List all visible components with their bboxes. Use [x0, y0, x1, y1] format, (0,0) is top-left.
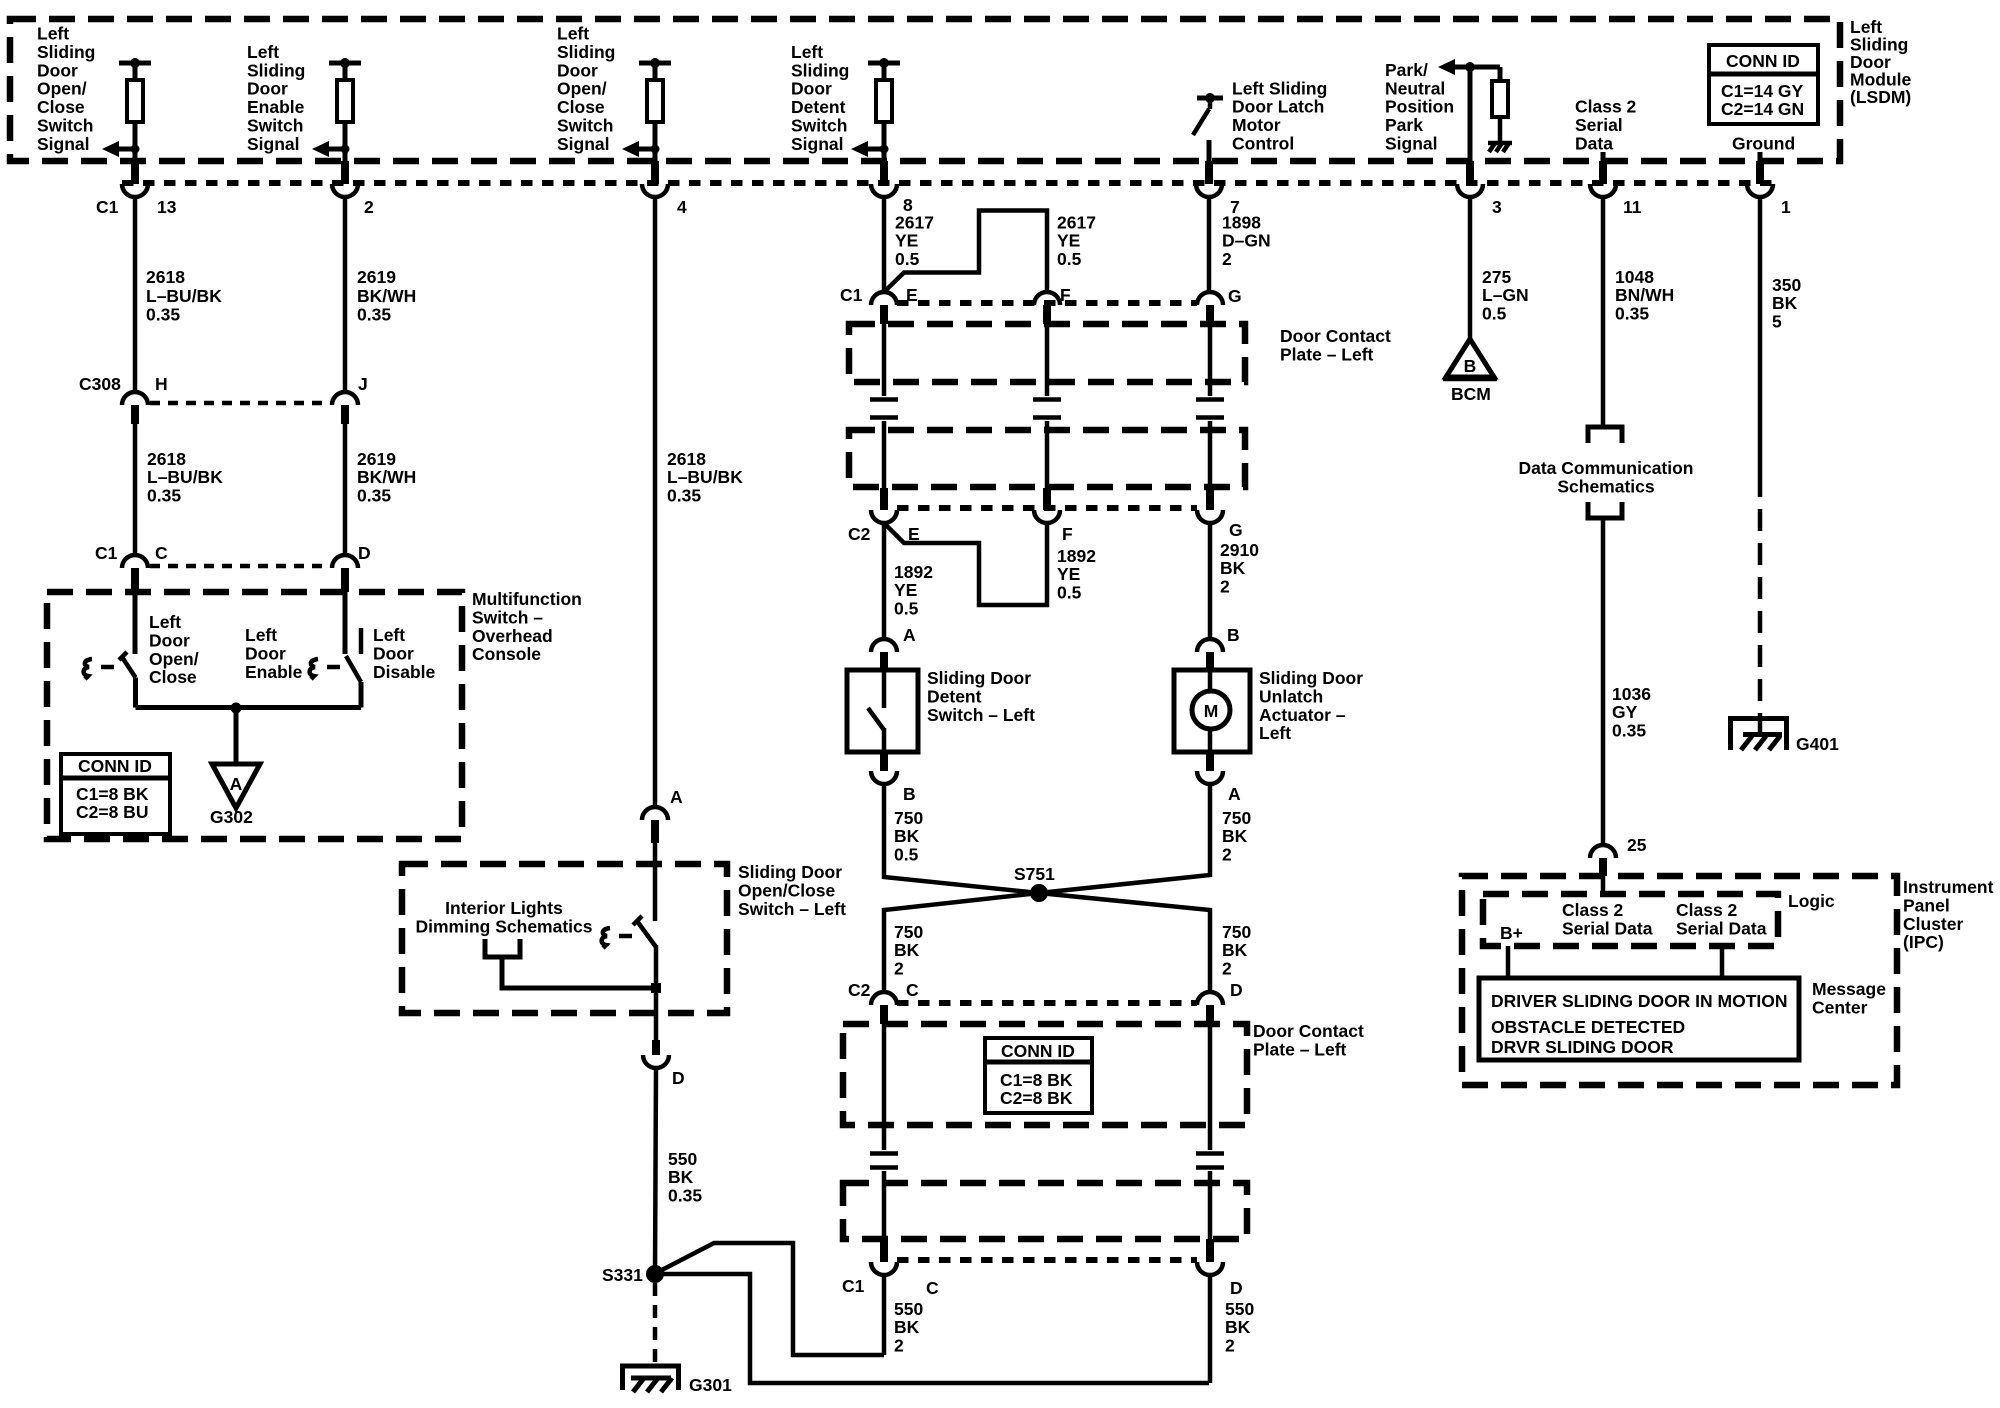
svg-text:0.5: 0.5	[1057, 249, 1082, 269]
svg-text:DRIVER SLIDING DOOR IN MOTION: DRIVER SLIDING DOOR IN MOTION	[1491, 991, 1788, 1011]
wire 2618 pin13 to C308	[133, 196, 138, 392]
wire label 2618 L-BU/BK 0.35 (lower)	[147, 449, 223, 505]
park neutral position symbol	[1438, 59, 1512, 161]
svg-text:Door: Door	[791, 79, 832, 99]
svg-text:1892: 1892	[1057, 546, 1096, 566]
svg-text:Door: Door	[245, 643, 286, 663]
ground pin label	[1732, 134, 1795, 162]
svg-text:C308: C308	[79, 374, 121, 394]
svg-text:0.35: 0.35	[667, 485, 701, 505]
svg-text:Message: Message	[1812, 979, 1886, 999]
svg-text:2: 2	[1222, 249, 1232, 269]
svg-text:Interior Lights: Interior Lights	[445, 898, 563, 918]
svg-text:C: C	[906, 980, 919, 1000]
wire label 750 BK 2 (right upper)	[1222, 808, 1251, 864]
connector C308 pin J	[332, 374, 368, 424]
module pin 7 connector	[1196, 161, 1240, 217]
switch signal symbol 1 label	[37, 24, 95, 154]
svg-text:Close: Close	[37, 97, 85, 117]
svg-text:550: 550	[894, 1299, 923, 1319]
svg-text:Logic: Logic	[1788, 891, 1835, 911]
svg-text:Door: Door	[373, 643, 414, 663]
svg-text:Overhead: Overhead	[472, 626, 553, 646]
svg-text:Sliding: Sliding	[791, 60, 849, 80]
svg-text:DRVR SLIDING DOOR: DRVR SLIDING DOOR	[1491, 1037, 1674, 1057]
svg-text:C2: C2	[848, 524, 871, 544]
switch signal symbol 4 label	[791, 42, 849, 154]
wire 2617 jog E to F	[885, 211, 1047, 293]
svg-text:0.35: 0.35	[1615, 303, 1649, 323]
switch left door enable	[345, 592, 361, 708]
wire label 750 BK 0.5	[894, 808, 923, 864]
door contact plate lower box section 2	[843, 1183, 1247, 1239]
svg-text:BK: BK	[894, 940, 920, 960]
svg-text:BK: BK	[1220, 558, 1246, 578]
multifunction switch label	[472, 589, 582, 664]
svg-text:Switch: Switch	[37, 116, 93, 136]
switch 2 dashed actuator	[310, 659, 340, 679]
wire 1898 pin7 to C1 G	[1207, 196, 1212, 292]
svg-text:A: A	[230, 774, 243, 794]
svg-text:5: 5	[1772, 311, 1782, 331]
svg-text:BK: BK	[1222, 826, 1248, 846]
wire label 2910 BK 2	[1220, 540, 1259, 596]
wire label 275 L-GN 0.5	[1482, 267, 1529, 323]
message center label	[1812, 979, 1886, 1017]
svg-text:Enable: Enable	[247, 97, 305, 117]
svg-text:Center: Center	[1812, 997, 1868, 1017]
svg-text:Close: Close	[557, 97, 605, 117]
left door open/close label	[149, 612, 199, 687]
connector A unlatch actuator	[1197, 752, 1241, 804]
svg-text:13: 13	[157, 197, 177, 217]
svg-text:0.35: 0.35	[1612, 720, 1646, 740]
wire 750 BK 0.5 detent B to S751	[884, 784, 1039, 893]
svg-text:YE: YE	[1057, 231, 1080, 251]
connector C1 pin F door plate	[1034, 285, 1071, 324]
svg-text:2618: 2618	[146, 267, 185, 287]
svg-text:Switch –: Switch –	[472, 607, 543, 627]
wire 2619 C308 to C1 multifunction	[343, 424, 348, 555]
connector C2 pin D lower plate	[1197, 980, 1243, 1024]
splice S331	[602, 1265, 664, 1285]
svg-text:Door: Door	[557, 60, 598, 80]
wire label 1898 D-GN 2	[1222, 213, 1271, 269]
connector C1 pin E door plate	[840, 285, 918, 324]
svg-text:2: 2	[364, 197, 374, 217]
svg-text:A: A	[1228, 784, 1241, 804]
svg-text:Park: Park	[1385, 115, 1423, 135]
wire label 550 BK 0.35	[668, 1149, 702, 1205]
svg-text:Signal: Signal	[557, 134, 610, 154]
data communication schematics reference	[1518, 427, 1693, 518]
contact plate sliding contact F	[1033, 324, 1061, 488]
svg-text:Sliding Door: Sliding Door	[1259, 668, 1363, 688]
switch signal symbol 2 (Left Sliding Door Enable Switch Signal)	[312, 58, 361, 161]
latch motor control switch symbol	[1193, 93, 1223, 161]
wire S751 to C2 C	[884, 893, 1039, 992]
svg-text:Enable: Enable	[245, 662, 303, 682]
svg-text:CONN ID: CONN ID	[1726, 51, 1800, 71]
wire label 2619 BK/WH 0.35 (lower)	[357, 449, 416, 505]
svg-text:(IPC): (IPC)	[1903, 932, 1944, 952]
svg-text:Ground: Ground	[1732, 134, 1795, 154]
wire label 1892 YE 0.5 (F)	[1057, 546, 1096, 602]
connector pin 25 IPC	[1590, 835, 1647, 876]
ground triangle A G302	[210, 764, 260, 827]
svg-text:0.35: 0.35	[147, 485, 181, 505]
svg-text:A: A	[670, 787, 683, 807]
wire 1048 pin11 to data comm	[1601, 196, 1606, 427]
svg-text:Serial Data: Serial Data	[1562, 918, 1653, 938]
svg-text:Door: Door	[149, 630, 190, 650]
svg-text:11: 11	[1623, 197, 1642, 217]
left door enable label	[245, 625, 303, 682]
svg-text:Schematics: Schematics	[1557, 476, 1655, 496]
svg-text:2: 2	[894, 958, 904, 978]
svg-text:Open/: Open/	[37, 79, 87, 99]
wire 2619 pin2 to C308	[343, 196, 348, 392]
svg-text:1: 1	[1781, 197, 1791, 217]
svg-text:Motor: Motor	[1232, 115, 1281, 135]
wire label 550 BK 2 (right)	[1225, 1299, 1254, 1355]
wire 550 BK 2 pin D down	[1208, 1275, 1213, 1383]
sliding door unlatch actuator box	[1174, 670, 1250, 752]
logic dashed box IPC	[1483, 894, 1778, 946]
svg-text:D: D	[1230, 1278, 1243, 1298]
wire label 1036 GY 0.35	[1612, 684, 1651, 740]
wire 350 pin1 to G401	[1758, 196, 1763, 716]
interior lights branch wire	[502, 957, 656, 988]
svg-text:S751: S751	[1014, 864, 1055, 884]
svg-text:Neutral: Neutral	[1385, 78, 1445, 98]
class 2 serial data label 1	[1562, 900, 1653, 938]
svg-text:Left: Left	[149, 612, 181, 632]
lower contact sliding contact D	[1196, 1024, 1224, 1239]
interior switch dashed actuator	[602, 928, 632, 948]
svg-text:Left: Left	[247, 42, 279, 62]
ground G301	[620, 1366, 732, 1395]
svg-text:2617: 2617	[895, 213, 934, 233]
svg-text:Sliding: Sliding	[247, 60, 305, 80]
svg-text:BK/WH: BK/WH	[357, 467, 416, 487]
svg-text:Sliding Door: Sliding Door	[738, 862, 842, 882]
svg-text:Close: Close	[149, 667, 197, 687]
svg-text:L–BU/BK: L–BU/BK	[146, 286, 222, 306]
module pin 2 connector	[332, 161, 374, 217]
connector C2 pin E door plate	[848, 488, 920, 544]
C2 door plate dotted line	[897, 505, 1197, 511]
svg-text:Switch: Switch	[247, 116, 303, 136]
wire 550 BK 2 pin C to S331 branch	[882, 1275, 887, 1355]
wire 2618 C308 to C1 multifunction	[133, 424, 138, 555]
connector D interior switch	[643, 1013, 685, 1088]
svg-text:3: 3	[1492, 197, 1502, 217]
connector C1 pin C multifunction	[95, 543, 168, 592]
multifunction switch overhead console dashed box	[47, 592, 462, 839]
wire label 1892 YE 0.5 (E)	[894, 562, 933, 618]
interior lights dimming label	[416, 898, 593, 936]
wire S751 to C2 D	[1039, 893, 1210, 992]
connector C2 pin G door plate	[1197, 488, 1243, 540]
svg-text:Plate – Left: Plate – Left	[1280, 344, 1374, 364]
connector C1 pin G door plate	[1197, 286, 1242, 324]
contact plate sliding contact G	[1196, 324, 1224, 488]
svg-text:CONN ID: CONN ID	[78, 756, 152, 776]
wire 275 pin3 to BCM	[1468, 196, 1473, 339]
instrument panel cluster dashed box	[1462, 876, 1897, 1085]
sliding door open/close switch left	[633, 843, 656, 1013]
svg-text:M: M	[1204, 701, 1219, 721]
module LSDM label	[1850, 17, 1912, 107]
svg-text:YE: YE	[895, 231, 918, 251]
svg-text:Left: Left	[791, 42, 823, 62]
splice S751	[1014, 864, 1055, 902]
svg-text:BK: BK	[1772, 293, 1798, 313]
lower contact sliding contact C	[870, 1024, 898, 1239]
wire 550 BK 0.35 to S331	[655, 1068, 656, 1274]
door contact plate upper label	[1280, 326, 1391, 364]
latch motor control label	[1232, 78, 1327, 153]
ground G401	[1728, 716, 1839, 754]
wire label 550 BK 2 (left)	[894, 1299, 923, 1355]
svg-text:Left: Left	[373, 625, 405, 645]
svg-text:Door Contact: Door Contact	[1280, 326, 1391, 346]
left door disable contact	[359, 628, 364, 654]
svg-text:BCM: BCM	[1451, 384, 1491, 404]
C1 lower plate dotted line	[897, 1257, 1197, 1263]
svg-text:C2=14 GN: C2=14 GN	[1721, 99, 1804, 119]
module pin 3 connector	[1457, 161, 1502, 217]
svg-text:Control: Control	[1232, 134, 1294, 154]
connector A interior switch	[642, 787, 683, 843]
wire C2 E to detent switch A	[882, 523, 887, 639]
svg-text:0.35: 0.35	[357, 485, 391, 505]
svg-text:0.5: 0.5	[895, 249, 920, 269]
message center box	[1479, 978, 1799, 1060]
svg-text:YE: YE	[1057, 564, 1080, 584]
svg-text:1898: 1898	[1222, 213, 1261, 233]
door contact plate lower box section 1	[843, 1024, 1247, 1125]
svg-text:D: D	[1230, 980, 1243, 1000]
wire label 2617 YE 0.5 (pin F)	[1057, 213, 1096, 269]
door contact plate lower label	[1253, 1021, 1364, 1059]
interior lights dimming dashed box	[402, 864, 727, 1013]
svg-text:Data: Data	[1575, 134, 1613, 154]
wire logic to message center left	[1506, 946, 1511, 978]
svg-text:2619: 2619	[357, 449, 396, 469]
svg-text:Switch – Left: Switch – Left	[738, 899, 846, 919]
wire S331 to door plate D (lower branch)	[663, 1274, 1209, 1383]
svg-text:Data Communication: Data Communication	[1518, 458, 1693, 478]
svg-text:Sliding: Sliding	[557, 42, 615, 62]
svg-text:Position: Position	[1385, 97, 1454, 117]
svg-text:Disable: Disable	[373, 662, 436, 682]
svg-text:2: 2	[1225, 1335, 1235, 1355]
svg-text:G302: G302	[210, 807, 253, 827]
door contact plate upper box section 1	[849, 324, 1245, 382]
svg-text:BK: BK	[668, 1167, 694, 1187]
CONN ID box lower plate	[985, 1038, 1092, 1113]
svg-text:1036: 1036	[1612, 684, 1651, 704]
class 2 serial data label 2	[1676, 900, 1767, 938]
svg-text:Detent: Detent	[927, 686, 982, 706]
svg-text:0.5: 0.5	[1482, 303, 1507, 323]
park neutral label	[1385, 60, 1454, 154]
connector C1 pin C lower plate	[842, 1239, 939, 1298]
wire 2617 pin8 to C1 E	[882, 196, 887, 292]
svg-text:Left: Left	[557, 24, 589, 44]
connector C2 pin C lower plate	[848, 980, 919, 1024]
svg-text:2617: 2617	[1057, 213, 1096, 233]
svg-text:750: 750	[1222, 808, 1251, 828]
sliding door detent switch box	[847, 670, 918, 752]
svg-text:D: D	[672, 1068, 685, 1088]
connector C1 pin D lower plate	[1197, 1239, 1243, 1298]
wire logic to message center right	[1720, 946, 1725, 978]
svg-text:C: C	[155, 543, 168, 563]
svg-text:CONN ID: CONN ID	[1001, 1041, 1075, 1061]
svg-text:Actuator –: Actuator –	[1259, 705, 1346, 725]
svg-text:B: B	[903, 784, 916, 804]
junction square interior	[651, 983, 661, 993]
wire label 2618 L-BU/BK 0.35 (pin 4)	[667, 449, 743, 505]
svg-text:BK: BK	[894, 1317, 920, 1337]
connector C2 pin F door plate	[1034, 488, 1073, 544]
CONN ID box LSDM	[1709, 45, 1818, 124]
wire label 750 BK 2 (left lower)	[894, 922, 923, 978]
svg-text:C2: C2	[848, 980, 871, 1000]
svg-text:Door: Door	[37, 60, 78, 80]
switch signal symbol 1 (Left Sliding Door Open/Close Switch Signal)	[102, 58, 151, 161]
svg-text:B: B	[1227, 625, 1240, 645]
svg-text:Left: Left	[245, 625, 277, 645]
C308 dashed connector line	[150, 401, 330, 406]
svg-text:OBSTACLE DETECTED: OBSTACLE DETECTED	[1491, 1017, 1685, 1037]
svg-text:550: 550	[1225, 1299, 1254, 1319]
C2 lower plate dotted line	[897, 1000, 1197, 1006]
svg-text:J: J	[358, 374, 368, 394]
svg-text:C1: C1	[842, 1276, 865, 1296]
switch common wire	[136, 705, 362, 710]
svg-text:0.35: 0.35	[668, 1185, 702, 1205]
svg-text:C1: C1	[840, 285, 863, 305]
svg-text:Open/Close: Open/Close	[738, 880, 836, 900]
unlatch actuator label	[1259, 668, 1363, 743]
wire to G302	[234, 708, 239, 764]
svg-text:750: 750	[894, 922, 923, 942]
svg-text:B: B	[1464, 356, 1477, 376]
svg-text:0.5: 0.5	[894, 844, 919, 864]
svg-text:C1=8 BK: C1=8 BK	[1000, 1070, 1073, 1090]
svg-text:25: 25	[1627, 835, 1647, 855]
IPC label	[1903, 877, 1994, 952]
svg-text:C1=14 GY: C1=14 GY	[1721, 81, 1804, 101]
svg-text:G: G	[1229, 520, 1243, 540]
svg-text:0.5: 0.5	[1057, 582, 1082, 602]
wire 2910 C2 G to actuator B	[1208, 523, 1213, 639]
svg-text:Switch: Switch	[557, 116, 613, 136]
svg-text:Cluster: Cluster	[1903, 914, 1963, 934]
svg-text:G301: G301	[689, 1375, 732, 1395]
wire label 350 BK 5	[1772, 275, 1801, 331]
svg-text:2618: 2618	[667, 449, 706, 469]
svg-text:Plate – Left: Plate – Left	[1253, 1039, 1347, 1059]
svg-text:C1: C1	[96, 197, 119, 217]
svg-text:2910: 2910	[1220, 540, 1259, 560]
module pin 1 connector	[1747, 161, 1791, 217]
interior lights bracket	[485, 939, 520, 957]
svg-text:YE: YE	[894, 580, 917, 600]
svg-text:H: H	[155, 374, 168, 394]
connector B detent switch	[871, 752, 916, 804]
svg-text:1892: 1892	[894, 562, 933, 582]
svg-text:Signal: Signal	[37, 134, 90, 154]
svg-text:Unlatch: Unlatch	[1259, 686, 1323, 706]
detent switch label	[927, 668, 1035, 725]
svg-text:2: 2	[1222, 958, 1232, 978]
svg-text:550: 550	[668, 1149, 697, 1169]
CONN ID box multifunction	[61, 754, 170, 834]
svg-text:G401: G401	[1796, 734, 1839, 754]
svg-text:Multifunction: Multifunction	[472, 589, 582, 609]
svg-text:D–GN: D–GN	[1222, 231, 1271, 251]
module pin 13 connector C1	[96, 161, 177, 217]
svg-text:BN/WH: BN/WH	[1615, 285, 1674, 305]
svg-text:2: 2	[894, 1335, 904, 1355]
C1 door plate dotted line	[897, 300, 1197, 306]
svg-text:Instrument: Instrument	[1903, 877, 1994, 897]
svg-text:350: 350	[1772, 275, 1801, 295]
module pin 8 connector	[871, 161, 913, 215]
svg-text:GY: GY	[1612, 702, 1638, 722]
svg-text:BK: BK	[894, 826, 920, 846]
junction dot multifunction common	[231, 703, 242, 714]
contact plate sliding contact E	[870, 324, 898, 488]
connector C1 pin D multifunction	[332, 543, 371, 592]
wire pin25 into logic box	[1601, 876, 1606, 894]
svg-text:275: 275	[1482, 267, 1511, 287]
svg-text:Sliding Door: Sliding Door	[927, 668, 1031, 688]
svg-text:BK: BK	[1222, 940, 1248, 960]
svg-text:Open/: Open/	[149, 649, 199, 669]
svg-text:(LSDM): (LSDM)	[1850, 87, 1911, 107]
wire label 2619 BK/WH 0.35 (upper)	[357, 267, 416, 325]
class 2 serial data label	[1575, 97, 1637, 161]
left door disable label	[373, 625, 436, 682]
module pin 11 connector	[1590, 161, 1642, 217]
svg-text:Switch – Left: Switch – Left	[927, 705, 1035, 725]
svg-text:C2=8 BK: C2=8 BK	[1000, 1088, 1073, 1108]
switch 1 dashed actuator	[84, 659, 114, 679]
svg-text:2619: 2619	[357, 267, 396, 287]
wire 1892 jog E to F lower	[885, 523, 1047, 605]
svg-text:Class 2: Class 2	[1575, 97, 1637, 117]
svg-text:F: F	[1062, 524, 1073, 544]
connector B unlatch actuator	[1197, 625, 1240, 670]
switch left door open/close	[119, 592, 136, 708]
svg-text:2618: 2618	[147, 449, 186, 469]
switch signal symbol 2 label	[247, 42, 305, 154]
svg-text:A: A	[903, 625, 916, 645]
wire label 1048 BN/WH 0.35	[1615, 267, 1674, 323]
wire 750 BK 2 actuator A to S751	[1039, 784, 1210, 893]
wire label 750 BK 2 (right lower)	[1222, 922, 1251, 978]
module pin 4 connector	[642, 161, 687, 217]
module LSDM dashed box	[10, 19, 1840, 161]
svg-text:D: D	[358, 543, 371, 563]
svg-text:G: G	[1228, 286, 1242, 306]
